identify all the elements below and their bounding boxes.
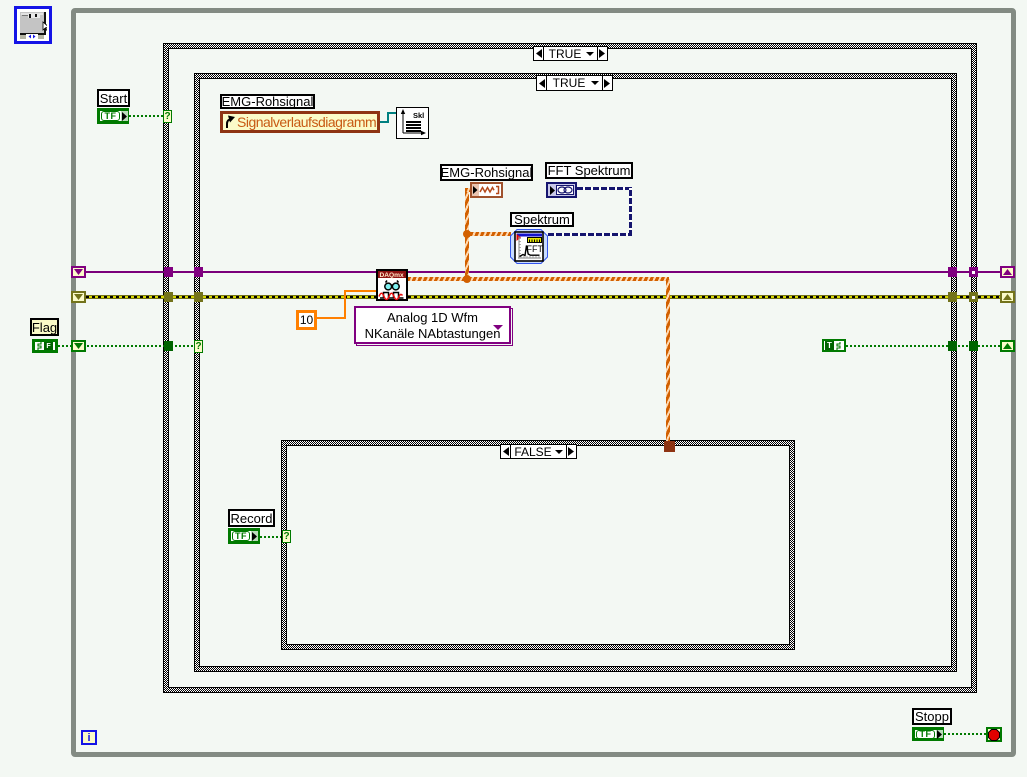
svg-text:Skl: Skl: [413, 111, 424, 120]
svg-text:FFT: FFT: [527, 244, 544, 254]
svg-text:DAQmx: DAQmx: [380, 272, 405, 279]
